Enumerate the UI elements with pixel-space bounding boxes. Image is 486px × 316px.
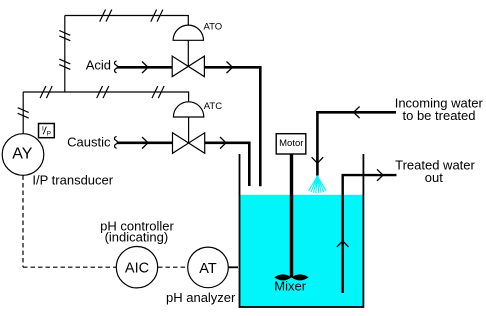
svg-text:pH analyzer: pH analyzer — [166, 290, 236, 305]
pneumatic line left vertical (to ATO) — [64, 16, 66, 93]
pneumatic line to ATO valve (top) — [65, 16, 189, 26]
acid pipe after valve, down into tank — [205, 67, 261, 186]
flow arrow — [220, 137, 226, 149]
flow arrow (down) — [312, 157, 324, 163]
dashed signal AIC to AT — [158, 266, 188, 268]
instrument bubble AT — [188, 247, 229, 288]
svg-text:Acid: Acid — [86, 58, 111, 73]
svg-text:to be treated: to be treated — [403, 108, 476, 123]
hash marks on second line — [40, 86, 164, 98]
svg-text:P: P — [47, 131, 51, 138]
flow arrow — [142, 137, 148, 149]
pneumatic line to ATC valve (second) — [23, 92, 188, 102]
hash marks on left vertical — [59, 31, 70, 70]
svg-text:Motor: Motor — [279, 138, 303, 149]
flow arrow (left) — [354, 107, 360, 119]
hash marks on AY vertical — [18, 108, 29, 118]
valve actuator dome ATC — [173, 102, 203, 117]
control valve body (acid) — [172, 56, 204, 77]
flow arrow — [227, 62, 233, 74]
valve stem ATO — [187, 40, 189, 66]
motor box — [276, 134, 306, 154]
hash marks on top line — [100, 10, 163, 22]
svg-text:Caustic: Caustic — [67, 135, 111, 150]
dashed signal AY down — [22, 176, 24, 268]
svg-text:AY: AY — [12, 146, 32, 163]
caustic pipe after valve, down into tank — [205, 143, 249, 186]
wire AT to tank — [228, 266, 238, 268]
flow arrow (up) — [337, 241, 349, 247]
caustic pipe before valve — [117, 142, 172, 145]
flow arrow (right) — [377, 169, 383, 181]
svg-text:ATO: ATO — [204, 21, 223, 32]
pipe break squiggle (caustic) — [114, 136, 117, 148]
pneumatic vertical down to AY — [22, 92, 24, 134]
dashed signal to AIC — [23, 266, 116, 268]
acid pipe before valve — [117, 66, 172, 69]
spray — [309, 176, 327, 193]
svg-text:Mixer: Mixer — [274, 279, 306, 294]
mixer shaft — [290, 154, 293, 278]
control valve body (caustic) — [173, 133, 205, 154]
tank walls — [240, 154, 364, 307]
instrument bubble AY — [2, 134, 44, 176]
I/P box — [39, 124, 55, 138]
svg-text:AIC: AIC — [125, 261, 149, 277]
mixer impeller — [274, 274, 291, 280]
svg-text:ATC: ATC — [204, 101, 222, 112]
treated water pipe — [343, 175, 397, 293]
incoming water pipe — [317, 112, 396, 175]
valve stem ATC — [188, 117, 190, 143]
pipe break squiggle (acid) — [114, 61, 117, 73]
svg-text:out: out — [425, 170, 443, 185]
svg-text:(indicating): (indicating) — [105, 230, 169, 245]
svg-text:AT: AT — [199, 261, 217, 277]
instrument bubble AIC — [116, 247, 157, 288]
tank water — [240, 195, 363, 307]
flow arrow — [142, 62, 148, 74]
valve actuator dome ATO — [173, 25, 203, 40]
svg-text:I/P transducer: I/P transducer — [32, 173, 113, 188]
svg-text:I: I — [42, 125, 44, 132]
